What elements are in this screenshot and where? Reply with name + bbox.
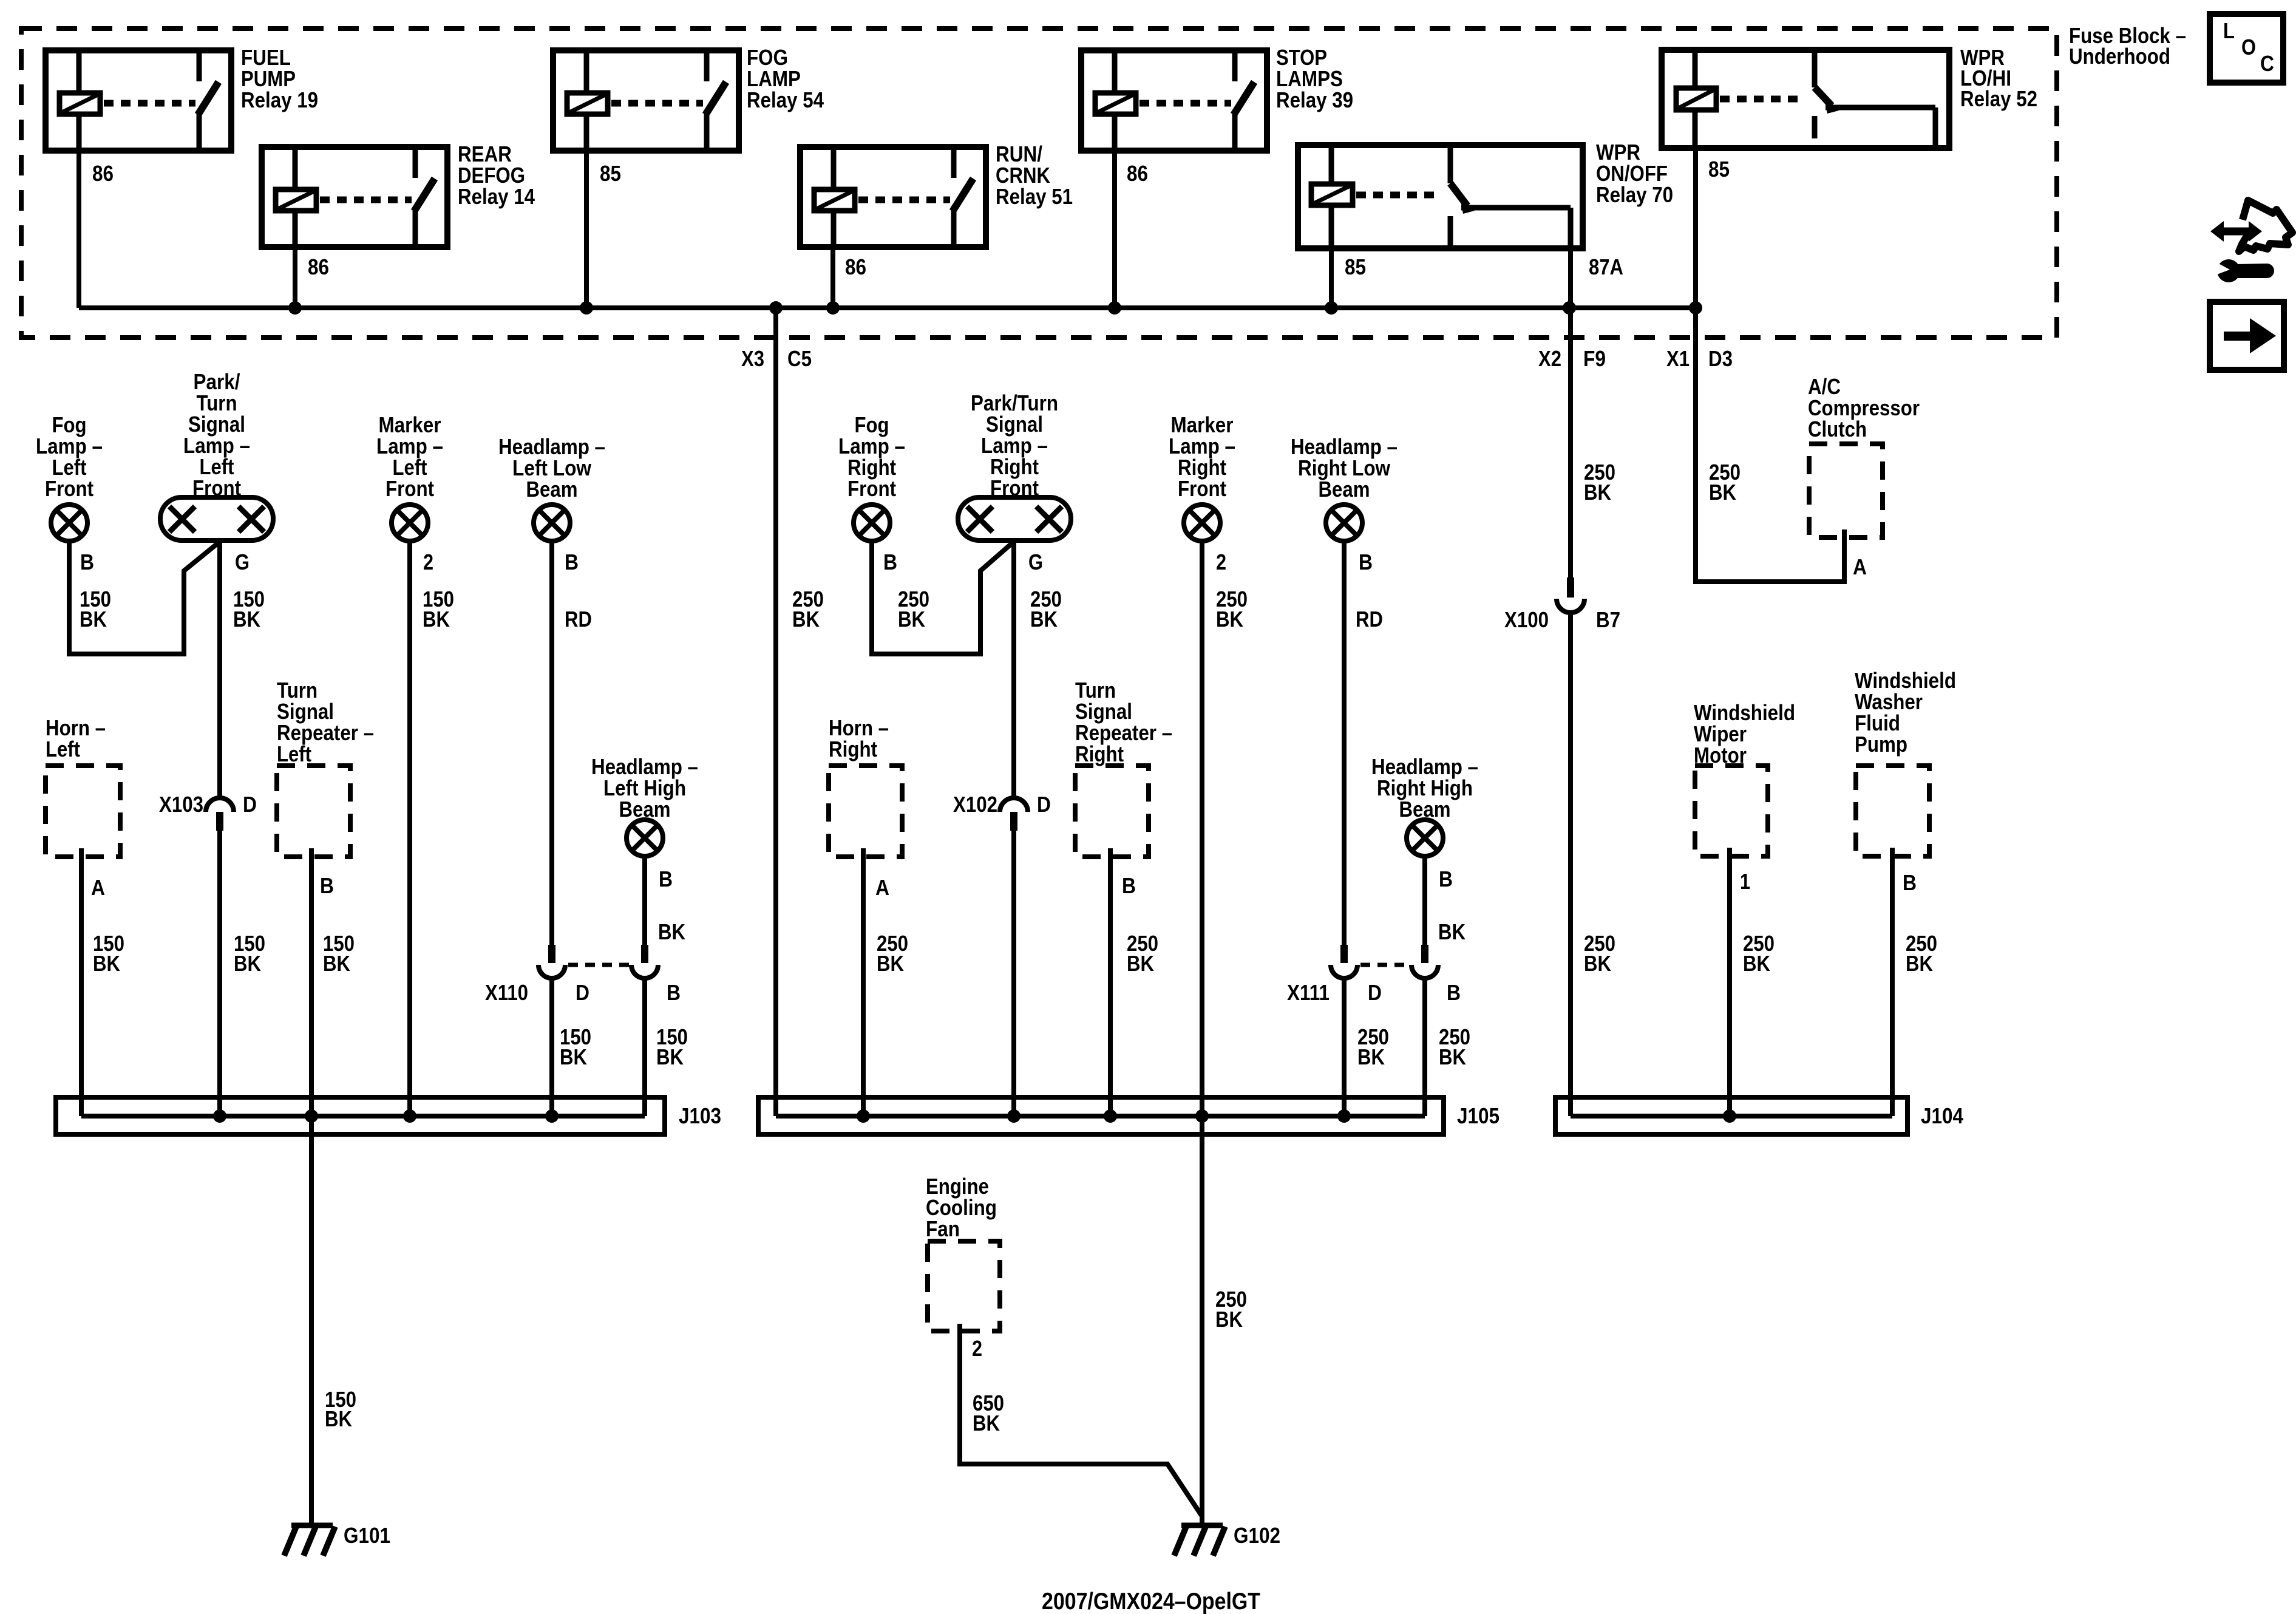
svg-text:Front: Front xyxy=(192,475,241,500)
wire label 250 BK (X111 B) xyxy=(1439,1024,1470,1069)
svg-text:X3: X3 xyxy=(741,346,764,371)
node: low beam right at J105 xyxy=(1337,1109,1351,1123)
svg-text:86: 86 xyxy=(1127,161,1148,186)
pin 2 label (marker lamp left) xyxy=(423,550,433,574)
svg-text:2007/GMX024–OpelGT: 2007/GMX024–OpelGT xyxy=(1042,1588,1260,1614)
svg-text:B7: B7 xyxy=(1596,607,1620,632)
pin D label (X102) xyxy=(1037,792,1051,817)
connector X110 (two in-line halves, pins D and B) xyxy=(538,945,658,978)
pin G label (park/turn right) xyxy=(1028,550,1043,574)
node: rear defog 86 junction xyxy=(288,301,302,315)
wire: fuel pump relay pin 86 to bus xyxy=(76,151,81,308)
wire: park/turn right G down to connector X102 xyxy=(1011,540,1016,798)
wire: repeater right B to J105 bus xyxy=(1108,848,1113,1116)
pin B label (washer pump) xyxy=(1903,870,1917,895)
svg-text:BK: BK xyxy=(323,951,350,976)
svg-text:87A: 87A xyxy=(1589,254,1623,279)
svg-text:B: B xyxy=(80,550,94,574)
svg-text:X110: X110 xyxy=(485,980,528,1005)
wire label 250 BK (marker lamp right lower) xyxy=(1215,1287,1247,1332)
wire: X103 to J103 bus xyxy=(217,831,222,1116)
wire label RD (headlamp left low) xyxy=(565,607,592,632)
svg-text:O: O xyxy=(2241,35,2256,60)
pin D label (X111) xyxy=(1368,980,1382,1005)
wire label BK (headlamp right high) xyxy=(1438,919,1466,944)
icon: LOC reference box xyxy=(2210,14,2283,83)
relay 70 WPR ON/OFF (coil + changeover switch) xyxy=(1298,145,1583,248)
wire: marker lamp right through J105 bus to G102 xyxy=(1200,541,1204,1525)
svg-text:A: A xyxy=(875,875,889,900)
pin B label (repeater left) xyxy=(320,873,334,898)
svg-text:BK: BK xyxy=(1709,480,1736,505)
label: Marker Lamp - Right Front xyxy=(1169,412,1235,501)
pin B7 label xyxy=(1596,607,1620,632)
svg-text:Beam: Beam xyxy=(1319,477,1370,502)
pin D label (X110) xyxy=(576,980,589,1005)
component: Turn Signal Repeater - Right (dashed box) xyxy=(1075,766,1149,857)
wire: horn right A to J105 bus xyxy=(861,848,866,1116)
wire label 150 BK (J103 to G101) xyxy=(325,1387,356,1431)
wire: horn left A to J103 bus xyxy=(79,848,84,1116)
pin A label (A/C clutch) xyxy=(1853,554,1867,579)
component: Turn Signal Repeater - Left (dashed box) xyxy=(277,766,350,857)
pin C5 label xyxy=(787,346,812,371)
svg-text:BK: BK xyxy=(792,607,820,632)
svg-text:G102: G102 xyxy=(1234,1523,1280,1548)
lamp: Park/Turn Signal Lamp - Right Front xyxy=(958,497,1071,540)
svg-text:86: 86 xyxy=(92,161,114,186)
bus J103 (splice pack) xyxy=(56,1097,665,1134)
lamp: Headlamp - Right Low Beam xyxy=(1326,505,1362,541)
svg-text:X1: X1 xyxy=(1666,346,1690,371)
svg-text:Pump: Pump xyxy=(1855,732,1907,757)
wire label 250 BK (washer pump) xyxy=(1906,931,1937,976)
svg-text:BK: BK xyxy=(1584,480,1611,505)
label X100 xyxy=(1504,607,1549,632)
wire label 250 BK (X111 D) xyxy=(1357,1024,1389,1069)
svg-text:2: 2 xyxy=(423,550,433,574)
lamp: Park/Turn Signal Lamp - Left Front xyxy=(160,497,273,540)
node: horn right at J105 xyxy=(857,1109,870,1123)
svg-text:85: 85 xyxy=(1708,157,1730,182)
svg-text:Underhood: Underhood xyxy=(2069,44,2170,69)
node: X1/D3 feed junction xyxy=(1689,301,1702,315)
svg-text:X102: X102 xyxy=(953,792,997,817)
wire: marker lamp left to J103 bus xyxy=(407,541,412,1116)
svg-text:Front: Front xyxy=(385,476,434,501)
svg-text:G: G xyxy=(235,550,250,574)
node: stop lamps 86 junction xyxy=(1108,301,1121,315)
label J105 xyxy=(1457,1103,1500,1128)
label: Fog Lamp - Right Front xyxy=(838,412,905,501)
svg-text:2: 2 xyxy=(972,1336,982,1361)
label: Windshield Wiper Motor xyxy=(1694,700,1795,768)
svg-text:C: C xyxy=(2260,51,2274,76)
lamp: Headlamp - Left Low Beam xyxy=(534,505,570,541)
label: Headlamp - Right Low Beam xyxy=(1291,434,1398,502)
pin A label (horn right) xyxy=(875,875,889,900)
svg-text:BK: BK xyxy=(233,607,260,632)
svg-text:BK: BK xyxy=(1127,951,1154,976)
svg-text:D3: D3 xyxy=(1708,346,1733,371)
wire: X110 D to J103 bus xyxy=(549,978,554,1116)
wire: fog lamp left B to park/turn ground node xyxy=(69,541,220,654)
node: marker left at J103 xyxy=(403,1109,416,1123)
svg-text:BK: BK xyxy=(1216,607,1243,632)
node: G102 wire at J105 xyxy=(1195,1109,1209,1123)
svg-text:BK: BK xyxy=(1357,1044,1385,1069)
svg-text:Motor: Motor xyxy=(1694,743,1747,768)
svg-text:RD: RD xyxy=(1356,607,1383,632)
lamp: Headlamp - Right High Beam xyxy=(1407,820,1443,856)
wire: fog lamp relay pin 85 to bus xyxy=(584,151,589,308)
node: G101 wire at J103 xyxy=(305,1109,318,1123)
svg-text:85: 85 xyxy=(600,161,621,186)
svg-text:B: B xyxy=(565,550,579,574)
node: wpr on/off 87A junction xyxy=(1563,301,1576,315)
relay 39 STOP LAMPS (coil + switch) xyxy=(1081,50,1267,151)
wire: rear defog relay pin 86 to bus xyxy=(293,247,297,308)
relay 14 REAR DEFOG (coil + switch) xyxy=(262,147,447,247)
pin B label (headlamp left low) xyxy=(565,550,579,574)
svg-text:BK: BK xyxy=(325,1406,352,1431)
pin B label (X110) xyxy=(667,980,681,1005)
svg-text:G: G xyxy=(1028,550,1043,574)
wire label 150 BK (X110 B) xyxy=(656,1024,688,1069)
label: Windshield Washer Fluid Pump xyxy=(1855,668,1956,757)
svg-text:BK: BK xyxy=(1438,919,1466,944)
pin 1 label (wiper motor) xyxy=(1740,869,1750,894)
label: Engine Cooling Fan xyxy=(926,1174,997,1241)
wire: run/crnk relay pin 86 to bus xyxy=(830,247,835,308)
label X111 xyxy=(1287,980,1330,1005)
ground G101 xyxy=(284,1525,335,1556)
svg-text:A: A xyxy=(1853,554,1867,579)
wire: D3 feed down and over to A/C compressor clutch xyxy=(1696,308,1844,582)
svg-text:Left: Left xyxy=(277,741,311,766)
node: wiper motor at J104 xyxy=(1723,1109,1736,1123)
pin 85 label (fog lamp relay) xyxy=(600,161,621,186)
svg-text:J103: J103 xyxy=(679,1103,721,1128)
pin B label (X111) xyxy=(1447,980,1461,1005)
pin B label (headlamp right low) xyxy=(1359,550,1373,574)
bus J104 (splice pack) xyxy=(1555,1097,1907,1134)
icon: continuation arrow box xyxy=(2210,302,2284,370)
svg-text:X103: X103 xyxy=(159,792,203,817)
pin B label (fog lamp right) xyxy=(883,550,897,574)
svg-text:F9: F9 xyxy=(1583,346,1606,371)
component: Horn - Left (dashed box) xyxy=(46,766,120,857)
label: STOP LAMPS Relay 39 xyxy=(1276,45,1353,112)
svg-text:BK: BK xyxy=(1030,607,1058,632)
svg-text:B: B xyxy=(667,980,681,1005)
bus J105 (splice pack) xyxy=(758,1097,1444,1134)
svg-text:X2: X2 xyxy=(1538,346,1561,371)
svg-text:B: B xyxy=(1447,980,1461,1005)
pin D label (X103) xyxy=(243,792,257,817)
label: Fog Lamp - Left Front xyxy=(36,412,103,501)
label: Headlamp - Left High Beam xyxy=(591,754,698,822)
node: X3/C5 feed junction xyxy=(769,301,783,315)
relay 52 WPR LO/HI (coil + changeover switch) xyxy=(1662,50,1949,148)
pin 86 label (run/crnk relay) xyxy=(845,254,866,279)
pin 87A label (wpr on/off relay) xyxy=(1589,254,1623,279)
svg-text:D: D xyxy=(1037,792,1051,817)
svg-text:Relay 39: Relay 39 xyxy=(1276,87,1353,112)
svg-text:B: B xyxy=(320,873,334,898)
svg-text:Relay 52: Relay 52 xyxy=(1960,86,2037,111)
svg-text:BK: BK xyxy=(423,607,450,632)
lamp: Fog Lamp - Right Front xyxy=(854,505,890,541)
svg-text:B: B xyxy=(1439,867,1453,891)
node: low beam left at J103 xyxy=(545,1109,559,1123)
wire label 250 BK (B7 to J104) xyxy=(1584,931,1615,976)
svg-text:BK: BK xyxy=(973,1411,1000,1435)
wire label 250 BK (D3 feed) xyxy=(1709,460,1741,505)
node X2 label xyxy=(1538,346,1561,371)
svg-text:B: B xyxy=(1122,873,1136,898)
svg-text:B: B xyxy=(1903,870,1917,895)
relay 54 FOG LAMP (coil + switch) xyxy=(553,50,739,151)
wire label 250 BK (horn right) xyxy=(877,931,908,976)
wire: headlamp right low beam to connector X111 xyxy=(1342,541,1347,946)
pin F9 label xyxy=(1583,346,1606,371)
svg-text:D: D xyxy=(1368,980,1382,1005)
label G102 xyxy=(1234,1523,1280,1548)
svg-text:C5: C5 xyxy=(787,346,812,371)
pin D3 label xyxy=(1708,346,1733,371)
svg-text:2: 2 xyxy=(1216,550,1226,574)
wire: engine cooling fan to G102 xyxy=(960,1324,1202,1516)
svg-text:Relay 14: Relay 14 xyxy=(458,184,535,209)
svg-text:Front: Front xyxy=(45,476,93,501)
wire: F9 feed down to connector X100 xyxy=(1568,308,1573,577)
label: Turn Signal Repeater - Right xyxy=(1075,678,1172,766)
label: Horn - Right xyxy=(829,715,889,761)
wire: headlamp right high beam to connector X111 xyxy=(1422,856,1427,946)
wire: X111 D to J105 bus xyxy=(1342,978,1347,1116)
node X3 label xyxy=(741,346,764,371)
component: Engine Cooling Fan (dashed box) xyxy=(928,1241,1000,1331)
connector X111 (two in-line halves, pins D and B) xyxy=(1331,945,1438,978)
pin A label (horn left) xyxy=(91,875,105,900)
component: Windshield Washer Fluid Pump (dashed box) xyxy=(1856,766,1929,856)
svg-text:Right: Right xyxy=(829,737,877,761)
label: FUEL PUMP Relay 19 xyxy=(241,45,318,112)
connector X100 (in-line, pin B7) xyxy=(1557,577,1584,613)
pin 86 label (stop lamps relay) xyxy=(1127,161,1148,186)
pin 86 label (fuel pump relay) xyxy=(92,161,114,186)
svg-text:BK: BK xyxy=(1215,1307,1243,1332)
label: Park/Turn Signal Lamp - Left Front xyxy=(183,369,250,500)
wire: fog lamp right B to park/turn ground node xyxy=(872,541,1014,654)
label: Headlamp - Right High Beam xyxy=(1371,754,1478,822)
svg-text:Fan: Fan xyxy=(926,1216,960,1241)
svg-text:Left: Left xyxy=(46,737,80,761)
label: A/C Compressor Clutch xyxy=(1808,374,1920,441)
label: Marker Lamp - Left Front xyxy=(376,412,443,501)
wire label 150 BK (marker lamp left) xyxy=(423,587,454,632)
svg-text:BK: BK xyxy=(658,919,685,944)
svg-text:86: 86 xyxy=(845,254,866,279)
wire: fuse block internal bus (relay 86/85 commons) xyxy=(79,305,1696,310)
pin B label (headlamp right high) xyxy=(1439,867,1453,891)
label J103 xyxy=(679,1103,721,1128)
svg-text:Beam: Beam xyxy=(1399,797,1451,822)
wire label 250 BK (repeater right) xyxy=(1127,931,1158,976)
pin B label (headlamp left high) xyxy=(659,867,673,891)
node: X103 wire at J103 xyxy=(213,1109,226,1123)
svg-text:Relay 54: Relay 54 xyxy=(747,87,824,112)
node: repeater right at J105 xyxy=(1104,1109,1117,1123)
pin 2 label (engine cooling fan) xyxy=(972,1336,982,1361)
label: drawing footer 2007/GMX024-OpelGT xyxy=(1042,1588,1260,1614)
svg-text:Clutch: Clutch xyxy=(1808,417,1867,441)
svg-text:A: A xyxy=(91,875,105,900)
svg-text:Relay 70: Relay 70 xyxy=(1596,182,1673,207)
svg-text:Beam: Beam xyxy=(526,477,578,502)
label: Turn Signal Repeater - Left xyxy=(277,678,374,766)
wire label 150 BK (repeater left) xyxy=(323,931,355,976)
label X102 xyxy=(953,792,997,817)
pin 85 label (wpr lo/hi relay) xyxy=(1708,157,1730,182)
svg-text:BK: BK xyxy=(1584,951,1611,976)
svg-text:85: 85 xyxy=(1345,254,1366,279)
wire: park/turn left G down to connector X103 xyxy=(217,540,222,798)
svg-text:1: 1 xyxy=(1740,869,1750,894)
svg-text:BK: BK xyxy=(80,607,107,632)
wire: stop lamps relay pin 86 to bus xyxy=(1112,151,1117,308)
svg-text:Front: Front xyxy=(847,476,896,501)
wire label 250 BK (park/turn right) xyxy=(1030,587,1062,632)
wire label BK (headlamp left high) xyxy=(658,919,685,944)
svg-text:86: 86 xyxy=(308,254,329,279)
svg-text:D: D xyxy=(243,792,257,817)
svg-text:BK: BK xyxy=(1439,1044,1466,1069)
pin 85 label (wpr on/off relay) xyxy=(1345,254,1366,279)
label: Park/Turn Signal Lamp - Right Front xyxy=(971,390,1058,500)
label G101 xyxy=(344,1523,390,1548)
wire: wpr lo/hi relay pin 85 to bus xyxy=(1693,148,1698,308)
svg-text:BK: BK xyxy=(93,951,120,976)
node X1 label xyxy=(1666,346,1690,371)
connector X103 (in-line, pin D) xyxy=(206,798,234,831)
pin B label (fog lamp left) xyxy=(80,550,94,574)
label: RUN/CRNK Relay 51 xyxy=(996,141,1073,209)
icon: service/diagnostic symbol (arrow, part outline, wrench) xyxy=(2210,200,2292,282)
wire: X100 to J104 bus xyxy=(1568,613,1573,1116)
svg-text:BK: BK xyxy=(560,1044,587,1069)
svg-text:B: B xyxy=(659,867,673,891)
connector X102 (in-line, pin D) xyxy=(1000,798,1028,831)
relay 51 RUN/CRNK (coil + switch) xyxy=(800,147,986,247)
wire: wpr on/off relay pin 87A to bus xyxy=(1568,248,1573,308)
wire label 150 BK (X110 D) xyxy=(560,1024,591,1069)
wire: X111 B to J105 bus xyxy=(1422,978,1427,1116)
label X103 xyxy=(159,792,203,817)
label X110 xyxy=(485,980,528,1005)
wire label 650 BK (engine cooling fan) xyxy=(973,1391,1004,1435)
svg-text:J104: J104 xyxy=(1921,1103,1963,1128)
svg-text:B: B xyxy=(1359,550,1373,574)
wire label 250 BK (C5 feed) xyxy=(792,587,824,632)
node: X102 wire at J105 xyxy=(1007,1109,1021,1123)
pin 86 label (rear defog relay) xyxy=(308,254,329,279)
svg-text:Relay 19: Relay 19 xyxy=(241,87,318,112)
wire label RD (headlamp right low) xyxy=(1356,607,1383,632)
svg-text:Front: Front xyxy=(990,475,1039,500)
svg-text:X100: X100 xyxy=(1504,607,1549,632)
wire label 250 BK (F9 feed upper) xyxy=(1584,460,1615,505)
component: Horn - Right (dashed box) xyxy=(829,766,902,857)
wire: wiper motor to J104 bus xyxy=(1727,848,1732,1116)
svg-text:BK: BK xyxy=(877,951,904,976)
svg-text:B: B xyxy=(883,550,897,574)
ground G102 xyxy=(1174,1525,1225,1556)
lamp: Fog Lamp - Left Front xyxy=(51,505,87,541)
node: wpr on/off 85 junction xyxy=(1325,301,1338,315)
component: Windshield Wiper Motor (dashed box) xyxy=(1695,766,1768,856)
wire: headlamp left low beam to connector X110 xyxy=(549,541,554,946)
pin G label (park/turn left) xyxy=(235,550,250,574)
label: Fuse Block - Underhood xyxy=(2069,23,2186,69)
svg-text:BK: BK xyxy=(656,1044,684,1069)
label: REAR DEFOG Relay 14 xyxy=(458,141,535,209)
wire: washer pump to J104 bus xyxy=(1890,848,1895,1116)
wire: headlamp left high beam to connector X110 xyxy=(642,856,647,946)
svg-text:Front: Front xyxy=(1178,476,1226,501)
svg-text:G101: G101 xyxy=(344,1523,390,1548)
relay 19 FUEL PUMP (coil + switch) xyxy=(46,50,231,151)
wire: X102 to J105 bus xyxy=(1011,831,1016,1116)
wire label 250 BK (fog lamp right) xyxy=(898,587,929,632)
wire: repeater left B through J103 bus to G101 xyxy=(309,848,314,1525)
label: FOG LAMP Relay 54 xyxy=(747,45,824,112)
label: WPR ON/OFF Relay 70 xyxy=(1596,140,1673,207)
wire label 250 BK (wiper motor) xyxy=(1743,931,1775,976)
svg-text:BK: BK xyxy=(898,607,925,632)
wire label 150 BK (X103 to J103) xyxy=(234,931,265,976)
label: Horn - Left xyxy=(46,715,106,761)
pin 2 label (marker lamp right) xyxy=(1216,550,1226,574)
svg-text:Beam: Beam xyxy=(619,797,671,822)
svg-text:J105: J105 xyxy=(1457,1103,1500,1128)
wire label 150 BK (fog lamp left) xyxy=(80,587,111,632)
svg-text:D: D xyxy=(576,980,589,1005)
svg-text:Right: Right xyxy=(1075,741,1124,766)
wire: wpr on/off relay pin 85 to bus xyxy=(1329,248,1334,308)
label J104 xyxy=(1921,1103,1963,1128)
svg-text:BK: BK xyxy=(1743,951,1770,976)
lamp: Marker Lamp - Left Front xyxy=(392,505,428,541)
pin B label (repeater right) xyxy=(1122,873,1136,898)
svg-text:X111: X111 xyxy=(1287,980,1330,1005)
fuse block boundary (Fuse Block - Underhood) xyxy=(21,29,2057,338)
svg-text:Relay 51: Relay 51 xyxy=(996,184,1073,209)
wire label 150 BK (horn left) xyxy=(93,931,124,976)
label: Headlamp - Left Low Beam xyxy=(498,434,605,502)
svg-text:BK: BK xyxy=(234,951,261,976)
lamp: Headlamp - Left High Beam xyxy=(627,820,663,856)
node: run/crnk 86 junction xyxy=(826,301,840,315)
label: WPR LO/HI Relay 52 xyxy=(1960,45,2037,111)
lamp: Marker Lamp - Right Front xyxy=(1184,505,1220,541)
svg-text:L: L xyxy=(2223,18,2235,43)
node: fog lamp 85 junction xyxy=(580,301,593,315)
svg-text:RD: RD xyxy=(565,607,592,632)
wire label 250 BK (marker lamp right upper) xyxy=(1216,587,1248,632)
wire: C5 feed down to J103 bus xyxy=(773,308,778,1116)
